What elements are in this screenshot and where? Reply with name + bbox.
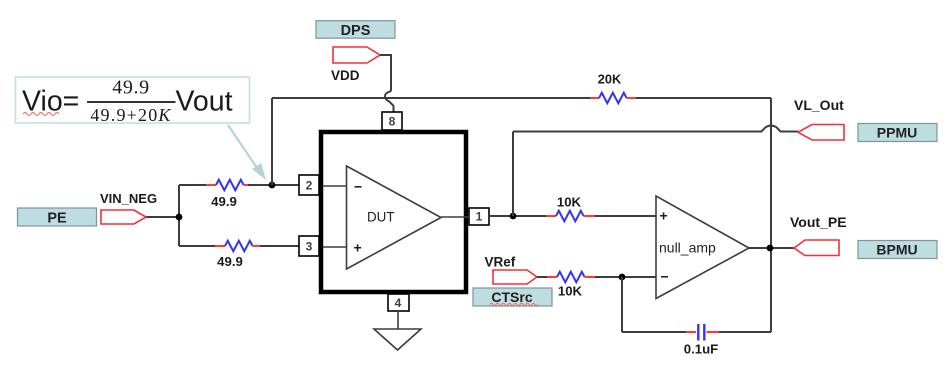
formula annotation box: [16, 77, 250, 126]
wire VL_Out horizontal with hop: [513, 126, 798, 132]
wire feedback bottom left: [622, 331, 686, 333]
wire 10K top to null_amp: [595, 215, 656, 217]
svg-text:VL_Out: VL_Out: [794, 97, 844, 113]
svg-text:3: 3: [306, 240, 313, 254]
wire DUT output internal: [441, 216, 469, 218]
svg-text:49.9: 49.9: [217, 254, 243, 269]
svg-text:10K: 10K: [557, 195, 582, 210]
svg-text:Vout: Vout: [176, 86, 233, 118]
wire 20K net right: [636, 97, 771, 99]
svg-text:null_amp: null_amp: [659, 240, 716, 256]
node output junction: [767, 245, 774, 252]
svg-text:49.9: 49.9: [211, 194, 237, 209]
svg-text:8: 8: [389, 115, 396, 129]
pin VIN_NEG: [101, 210, 146, 224]
annotation arrow: [228, 125, 266, 180]
pin box 1: [469, 208, 489, 225]
pin VL_Out: [798, 125, 844, 141]
wire pin 4 to ground: [397, 311, 399, 329]
svg-text:DUT: DUT: [367, 210, 395, 225]
wire VL_Out vertical: [512, 132, 514, 217]
wire input split vertical: [178, 185, 180, 246]
wire feedback vertical (cap): [621, 277, 623, 332]
resistor 10K (bottom): [547, 272, 595, 282]
wire VRef stub: [537, 276, 547, 278]
svg-text:CTSrc: CTSrc: [491, 289, 532, 305]
svg-text:+: +: [660, 208, 668, 224]
svg-text:VRef: VRef: [485, 255, 516, 270]
capacitor 0.1uF: [686, 324, 719, 341]
wire VIN_NEG stub: [146, 216, 179, 218]
pin box 4: [388, 294, 409, 311]
svg-text:49.9+20K: 49.9+20K: [90, 105, 171, 125]
DUT block U1: [321, 132, 466, 292]
ground: [374, 329, 421, 350]
pin Vout_PE: [794, 240, 839, 256]
resistor 20K: [590, 93, 636, 103]
pin box 8: [382, 112, 402, 130]
svg-text:−: −: [354, 179, 362, 195]
resistor 49.9 (bottom): [215, 241, 260, 251]
node inverting input junction: [619, 274, 626, 281]
wire DUT pin3 internal: [323, 246, 346, 248]
svg-text:BPMU: BPMU: [876, 242, 917, 258]
tag DPS: [316, 21, 395, 39]
pin VRef: [493, 270, 537, 284]
resistor 49.9 (top): [206, 180, 248, 190]
svg-text:49.9: 49.9: [112, 77, 149, 99]
svg-text:VIN_NEG: VIN_NEG: [100, 191, 157, 206]
svg-text:PE: PE: [47, 211, 67, 227]
svg-text:4: 4: [395, 296, 402, 310]
wire null_amp output: [749, 247, 794, 249]
wire DUT pin2 internal: [323, 185, 346, 187]
svg-text:−: −: [661, 269, 669, 285]
svg-text:VDD: VDD: [331, 68, 360, 83]
tag BPMU: [858, 241, 937, 259]
svg-text:2: 2: [306, 179, 313, 193]
wire pin1 to junction: [489, 215, 546, 217]
tag CTSrc: [473, 288, 552, 306]
wire top branch right: [248, 184, 299, 186]
node input junction: [176, 214, 183, 221]
svg-text:+: +: [354, 240, 362, 256]
pin VDD: [333, 47, 380, 63]
wire 10K bottom to null_amp: [595, 276, 656, 278]
node pin1 junction: [510, 213, 517, 220]
wire feedback vertical left: [271, 98, 273, 185]
resistor 10K (top): [546, 211, 595, 221]
op-amp null_amp: [656, 196, 749, 299]
svg-text:0.1uF: 0.1uF: [684, 342, 718, 357]
svg-text:PPMU: PPMU: [877, 125, 917, 141]
op-amp DUT triangle: [347, 166, 442, 269]
node feedback junction: [269, 182, 276, 189]
wire output vertical: [770, 98, 772, 332]
wire bottom branch right: [260, 245, 299, 247]
svg-text:Vio=: Vio=: [22, 86, 79, 118]
wire feedback bottom right: [719, 331, 771, 333]
wire top branch left: [179, 184, 206, 186]
svg-text:Vout_PE: Vout_PE: [790, 214, 847, 230]
wire bottom branch left: [179, 245, 215, 247]
wire VDD to pin 8 with hop: [380, 55, 394, 112]
svg-text:10K: 10K: [558, 284, 583, 299]
tag PPMU: [858, 124, 937, 142]
svg-text:1: 1: [476, 210, 483, 224]
svg-text:DPS: DPS: [341, 23, 371, 39]
pin box 3: [299, 236, 319, 256]
pin box 2: [299, 175, 319, 195]
tag PE: [18, 208, 97, 227]
wire 20K net left: [272, 97, 590, 99]
svg-text:20K: 20K: [598, 72, 622, 87]
